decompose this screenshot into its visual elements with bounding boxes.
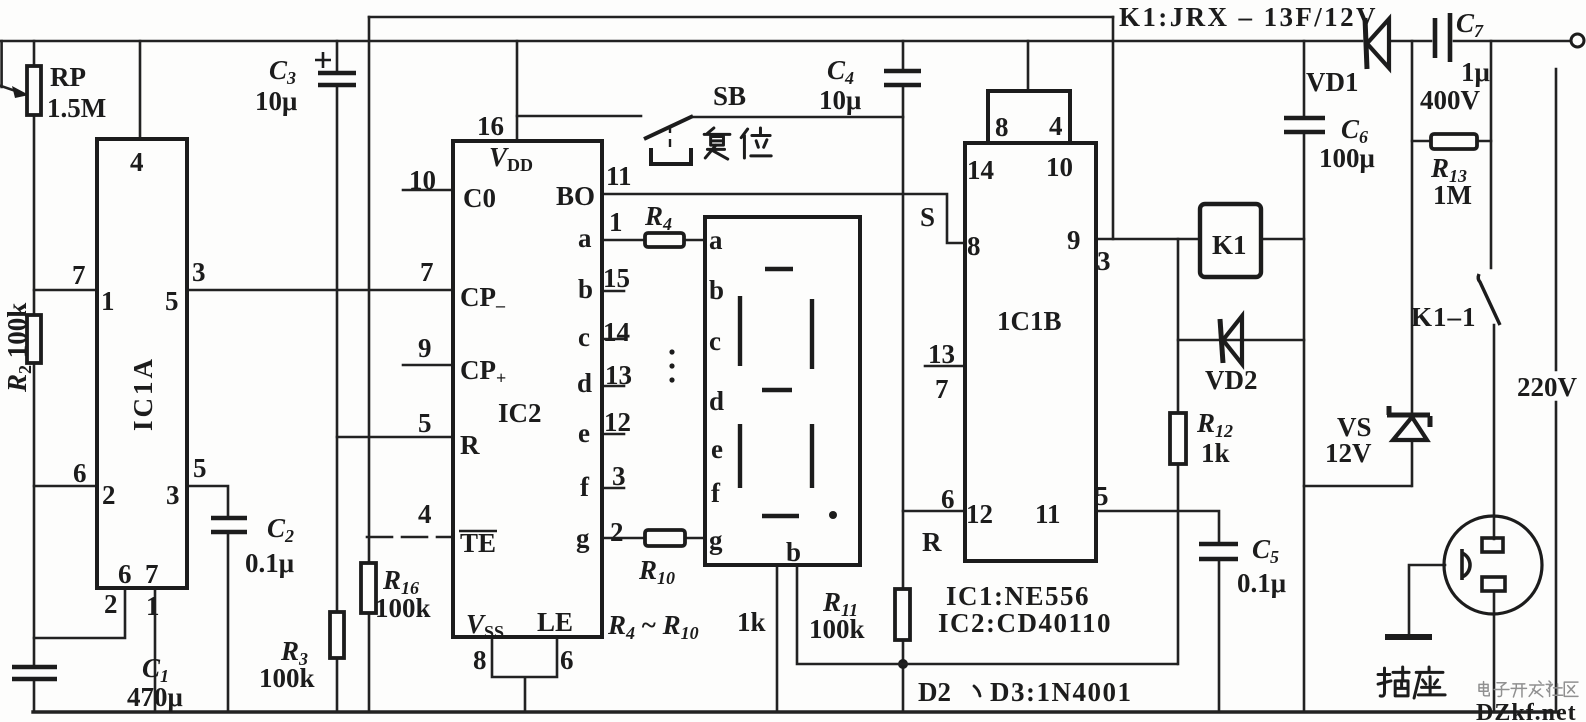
wire IC1A pin1 input	[34, 289, 97, 292]
svg-text:D2: D2	[918, 677, 951, 707]
svg-text:6: 6	[118, 559, 132, 589]
wire IC1B pin11/5 to C5	[1096, 511, 1219, 712]
diode VD2	[1220, 316, 1242, 364]
wire IC2 b stub	[602, 290, 624, 293]
7seg decimal point	[829, 511, 837, 519]
wire K1 to x1304 column	[1261, 238, 1304, 241]
7seg segment top	[765, 267, 793, 271]
svg-text:1M: 1M	[1433, 180, 1472, 210]
wire IC2 TE pin (dashed)	[367, 536, 453, 539]
svg-text:7: 7	[420, 257, 434, 287]
svg-text:3: 3	[166, 480, 180, 510]
capacitor C7 plates	[1435, 13, 1450, 62]
wire display b pin down and right	[797, 565, 1177, 664]
wire upper rail segment to C7	[1390, 40, 1431, 43]
svg-text:R12: R12	[1196, 408, 1233, 441]
svg-text:16: 16	[477, 111, 504, 141]
wire IC1A bottom pin1 to ground	[154, 588, 157, 712]
svg-text:R: R	[922, 527, 942, 557]
svg-text:11: 11	[1035, 499, 1061, 529]
svg-text:1: 1	[609, 207, 623, 237]
resistor R16 body	[361, 563, 376, 613]
wire SB left from VDD column	[517, 115, 641, 118]
switch K1-1 blade	[1478, 274, 1500, 325]
svg-text:12V: 12V	[1325, 438, 1372, 468]
7seg segment lower-left	[738, 424, 742, 488]
wire VD2 net	[1178, 339, 1304, 342]
svg-text:e: e	[578, 418, 590, 448]
wire socket bottom to ground rail	[1493, 591, 1496, 712]
switch SB push-button	[644, 116, 693, 139]
capacitor C3 plates	[318, 73, 356, 85]
svg-text:1μ: 1μ	[1461, 57, 1490, 87]
svg-text:13: 13	[605, 360, 632, 390]
label chazuo (socket) chinese	[1378, 667, 1409, 696]
svg-text:K1: K1	[1212, 230, 1247, 260]
svg-text:8: 8	[967, 231, 981, 261]
wire IC2 R pin to C3 column	[337, 436, 453, 439]
svg-text:R2 100k: R2 100k	[2, 303, 35, 393]
socket XS circle	[1444, 516, 1542, 614]
wire x1412 column rail to zener VS	[1411, 41, 1414, 486]
node junction dot at R11 bottom	[898, 659, 908, 669]
svg-text:VD1: VD1	[1306, 67, 1359, 97]
svg-text:7: 7	[935, 374, 949, 404]
svg-text:9: 9	[1067, 225, 1081, 255]
resistor R11 body	[895, 589, 910, 640]
wire IC2 pin10 stub	[403, 189, 453, 192]
svg-text:f: f	[711, 478, 721, 508]
svg-text:4: 4	[1049, 111, 1063, 141]
resistor R2 body	[27, 315, 41, 363]
op-amp/timer IC1A box	[97, 139, 187, 588]
svg-text:RP: RP	[50, 62, 86, 92]
svg-text:0.1μ: 0.1μ	[1237, 568, 1286, 598]
wire R13 left lead	[1412, 140, 1431, 143]
wire socket left lead to earth	[1409, 565, 1445, 634]
wire IC2 e stub	[602, 433, 624, 436]
svg-text:D3:1N4001: D3:1N4001	[990, 677, 1133, 707]
wire K1-1 lower column to socket	[1493, 325, 1496, 539]
svg-text:6: 6	[73, 458, 87, 488]
node mains terminal	[1571, 34, 1584, 47]
svg-text:10μ: 10μ	[255, 86, 297, 116]
svg-text:S: S	[920, 202, 935, 232]
svg-text:6: 6	[941, 484, 955, 514]
svg-text:VDD: VDD	[489, 142, 533, 175]
svg-text:C2: C2	[267, 513, 294, 546]
IC IC1B box	[965, 143, 1096, 561]
svg-text:400V: 400V	[1420, 85, 1481, 115]
svg-text:13: 13	[928, 339, 955, 369]
svg-text:g: g	[709, 525, 723, 555]
svg-text:100k: 100k	[259, 663, 315, 693]
socket D contact	[1462, 549, 1470, 580]
svg-text:3: 3	[612, 461, 626, 491]
svg-text:7: 7	[145, 559, 159, 589]
resistor R12 body	[1170, 413, 1186, 464]
svg-text:1: 1	[146, 591, 160, 621]
svg-text:IC1A: IC1A	[128, 356, 158, 431]
wire IC1B pin8/4 box to rail	[1027, 41, 1030, 91]
svg-text:R4 ~ R10: R4 ~ R10	[607, 610, 699, 643]
svg-text:IC1:NE556: IC1:NE556	[946, 581, 1090, 611]
svg-text:0.1μ: 0.1μ	[245, 548, 294, 578]
wire display common to ground rail	[776, 565, 779, 712]
IC IC2 box	[453, 141, 602, 637]
wire IC2 BO to IC1B S input	[602, 194, 965, 243]
svg-text:CP–: CP–	[460, 282, 506, 315]
capacitor C6 plates	[1284, 118, 1325, 132]
7seg segment upper-right	[810, 299, 814, 369]
svg-text:BO: BO	[556, 181, 595, 211]
wire IC2 VSS/LE bottom pins to ground	[492, 637, 557, 712]
svg-text:IC2:CD40110: IC2:CD40110	[938, 608, 1112, 638]
wire C4 column x903 down to R11	[902, 41, 905, 712]
wire vertical x1113 to IC1B pin9 net	[1112, 17, 1115, 239]
svg-text:CP+: CP+	[460, 355, 506, 388]
wire RP wiper feedback from rail	[1, 41, 20, 93]
svg-text:12: 12	[966, 499, 993, 529]
relay K1 box	[1200, 204, 1261, 277]
svg-text:10μ: 10μ	[819, 85, 861, 115]
wire IC2 d stub	[602, 385, 624, 388]
svg-text:R10: R10	[638, 555, 675, 588]
svg-text:15: 15	[603, 263, 630, 293]
wire C3 column x337 down through R3	[336, 41, 339, 712]
svg-text:e: e	[711, 434, 723, 464]
svg-text:a: a	[578, 223, 592, 253]
display DS1 7-segment box	[705, 217, 860, 565]
svg-text:DZkf.net: DZkf.net	[1476, 700, 1577, 722]
socket upper slot	[1482, 538, 1503, 552]
7seg segment lower-right	[810, 424, 814, 488]
svg-text:220V: 220V	[1517, 372, 1578, 402]
svg-text:1.5M: 1.5M	[47, 93, 106, 123]
svg-text:C5: C5	[1252, 534, 1279, 567]
7seg segment upper-left	[738, 296, 742, 366]
svg-text:C7: C7	[1456, 8, 1484, 41]
svg-text:IC2: IC2	[498, 398, 542, 428]
svg-text:1: 1	[101, 286, 115, 316]
svg-text:5: 5	[165, 286, 179, 316]
svg-text:100μ: 100μ	[1319, 143, 1375, 173]
wire top rail (V+ from rectifier)	[0, 40, 1362, 43]
label fuwei (reset) chinese	[704, 128, 730, 159]
capacitor C1 plates	[12, 667, 57, 679]
svg-text:100k: 100k	[809, 614, 865, 644]
wire K1-1 upper column from rail	[1490, 41, 1493, 268]
wire 220V line right side	[1555, 69, 1558, 712]
svg-text:5: 5	[193, 453, 207, 483]
svg-text:C0: C0	[463, 183, 496, 213]
wire left column x34 through RP R2 C1	[33, 41, 36, 712]
svg-text:8: 8	[995, 112, 1009, 142]
svg-text:c: c	[578, 322, 590, 352]
svg-text:LE: LE	[537, 607, 573, 637]
wire IC1A pin4 to rail	[139, 41, 142, 139]
wire IC1B pin9 to relay K1	[1096, 238, 1200, 241]
node ellipsis dots between IC2 and display	[669, 349, 674, 354]
capacitor C5 plates	[1199, 544, 1238, 559]
wire IC1B R pin12 from C4 column	[903, 510, 965, 513]
wire IC1A bottom pin2 return	[34, 588, 125, 638]
svg-text:14: 14	[967, 155, 994, 185]
wire IC2 c stub	[602, 338, 624, 341]
svg-text:10: 10	[1046, 152, 1073, 182]
svg-text:4: 4	[130, 147, 144, 177]
svg-text:c: c	[709, 326, 721, 356]
wire IC1A pin3 to IC2 CP-	[187, 289, 453, 292]
capacitor C2 plates	[211, 518, 247, 532]
svg-text:1C1B: 1C1B	[997, 306, 1062, 336]
wire vertical x369 (rail to bottom)	[368, 17, 371, 712]
svg-text:1k: 1k	[737, 607, 766, 637]
svg-text:5: 5	[418, 408, 432, 438]
potentiometer RP body	[27, 66, 41, 115]
diode VD1	[1365, 18, 1389, 69]
IC1B pins 8/4 top box	[988, 91, 1070, 143]
wire IC2 a output to R4 to display	[602, 239, 705, 242]
svg-text:3: 3	[1097, 246, 1111, 276]
svg-text:VSS: VSS	[466, 609, 504, 642]
wire IC1B pin13/7 stub	[925, 365, 965, 368]
socket lower slot	[1482, 577, 1505, 591]
wire second top rail	[369, 16, 1113, 19]
ground earth bar	[1385, 634, 1432, 640]
svg-text:b: b	[578, 274, 593, 304]
resistor R4 body	[645, 233, 684, 247]
svg-text:C4: C4	[827, 55, 854, 88]
wire IC2 pin16 VDD to rail	[516, 41, 519, 140]
7seg segment middle	[762, 388, 792, 392]
svg-text:R4: R4	[644, 201, 672, 234]
svg-text:10: 10	[409, 165, 436, 195]
wire IC1A pin5 to C2	[187, 486, 228, 712]
svg-text:a: a	[709, 225, 723, 255]
svg-text:K1:JRX – 13F/12V: K1:JRX – 13F/12V	[1119, 2, 1378, 32]
svg-text:K1–1: K1–1	[1411, 302, 1477, 332]
svg-text:C3: C3	[269, 55, 296, 88]
zener diode VS	[1387, 406, 1430, 440]
svg-text:2: 2	[610, 517, 624, 547]
wire x1304 column rail to ground	[1303, 41, 1306, 712]
svg-text:2: 2	[104, 589, 118, 619]
svg-text:5: 5	[1095, 481, 1109, 511]
svg-text:7: 7	[72, 260, 86, 290]
svg-text:R: R	[460, 430, 480, 460]
wire C7 to mains terminal	[1454, 40, 1571, 43]
wire vertical x1178 from pin9 net to R12	[1177, 239, 1180, 664]
wire bottom ground rail	[33, 710, 1558, 713]
wire R13 right lead to K1-1 column	[1477, 140, 1491, 143]
wire VS bottom to x1304	[1304, 485, 1411, 488]
watermark dianzi kaifa shequ chinese	[1479, 681, 1578, 697]
resistor R3 body	[330, 612, 344, 658]
svg-text:g: g	[576, 523, 590, 553]
svg-text:d: d	[577, 368, 592, 398]
svg-text:9: 9	[418, 333, 432, 363]
svg-text:12: 12	[604, 407, 631, 437]
capacitor C4 plates	[884, 71, 921, 85]
svg-text:b: b	[786, 537, 801, 567]
svg-text:8: 8	[473, 645, 487, 675]
svg-text:14: 14	[603, 317, 630, 347]
svg-text:VD2: VD2	[1205, 365, 1258, 395]
wire IC1A pin2 input	[34, 485, 97, 488]
svg-text:f: f	[580, 472, 590, 502]
capacitor C3 plus sign	[315, 52, 331, 68]
wire SB right to C4 column	[692, 116, 903, 119]
7seg segment bottom	[762, 514, 799, 518]
svg-text:2: 2	[102, 480, 116, 510]
svg-text:11: 11	[606, 161, 632, 191]
svg-text:3: 3	[192, 257, 206, 287]
svg-text:4: 4	[418, 499, 432, 529]
wire IC2 f stub	[602, 487, 624, 490]
resistor R13 body	[1431, 134, 1477, 149]
svg-text:470μ: 470μ	[127, 682, 183, 712]
resistor R10 body	[645, 530, 685, 546]
svg-text:d: d	[709, 386, 724, 416]
wire IC2 pin9 stub	[403, 364, 453, 367]
svg-text:TE: TE	[460, 528, 496, 558]
svg-text:1k: 1k	[1201, 438, 1230, 468]
svg-text:6: 6	[560, 645, 574, 675]
wire IC2 g output to R10 to display	[602, 537, 705, 540]
svg-text:SB: SB	[713, 81, 746, 111]
svg-text:b: b	[709, 275, 724, 305]
svg-text:100k: 100k	[375, 593, 431, 623]
